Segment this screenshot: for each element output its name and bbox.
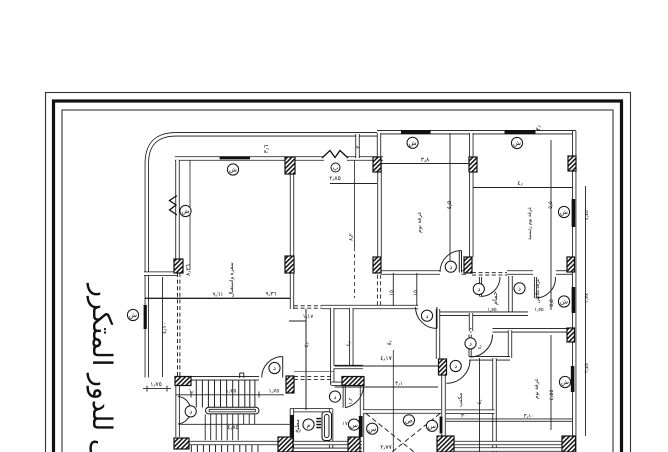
column C17: [437, 436, 454, 452]
svg-text:د: د: [477, 286, 480, 293]
svg-text:٣٠: ٣٠: [461, 414, 467, 420]
bathrooms bottom wall: [438, 312, 528, 316]
column C10: [567, 328, 575, 342]
wall connector x471: [469, 313, 473, 331]
small room right wall: [329, 409, 333, 452]
wall y358 WC bottom: [469, 356, 510, 360]
symbol s21: [450, 360, 461, 371]
column C12: [175, 377, 191, 386]
dim line terrace: [330, 183, 377, 185]
terrace divider stub: [355, 134, 359, 158]
svg-text:١٫٧٥: ١٫٧٥: [269, 389, 280, 395]
svg-text:١٫: ١٫: [189, 389, 194, 395]
duct wall vertical x351: [349, 308, 353, 366]
svg-text:ب: ب: [332, 165, 339, 172]
svg-text:س: س: [350, 422, 358, 429]
svg-text:د: د: [426, 313, 429, 320]
svg-text:٣٫١٠: ٣٫١٠: [524, 414, 535, 420]
dim line y386: [335, 386, 438, 388]
svg-text:مسقط افقى للدور المتكرر: مسقط افقى للدور المتكرر: [86, 282, 117, 452]
symbol s9: [445, 261, 456, 272]
top wall B (middle/right rooms): [377, 130, 576, 134]
symbol s10: [421, 310, 432, 321]
svg-text:٤٫: ٤٫: [517, 181, 522, 187]
bottom outer wall right: [453, 447, 576, 451]
bottom main wall right: [446, 441, 576, 445]
outer terrace wall rounded top-left: [147, 134, 377, 377]
svg-text:ص: ص: [405, 418, 413, 425]
wall reception divider: [290, 172, 294, 256]
svg-text:د: د: [454, 363, 457, 370]
svg-text:مطبخ: مطبخ: [294, 419, 301, 433]
window W-R2: [572, 287, 576, 313]
shaft cross diagonal 2: [392, 414, 440, 452]
hall south wall dashed part: [294, 305, 322, 307]
stair door notch: [239, 373, 241, 378]
svg-text:٩٫٦١: ٩٫٦١: [213, 292, 224, 298]
svg-text:ش: ش: [560, 209, 568, 216]
svg-text:غرفة نوم رئيسية: غرفة نوم رئيسية: [527, 207, 533, 240]
dashed open edge below: [177, 273, 179, 377]
svg-text:س: س: [428, 423, 436, 430]
svg-text:س: س: [368, 426, 376, 433]
column C1: [285, 157, 295, 174]
stair upper flight risers: [195, 380, 197, 407]
svg-text:ش: ش: [560, 299, 568, 306]
bedroom row top wall y330: [493, 328, 575, 332]
svg-text:٤٫: ٤٫: [346, 341, 352, 346]
symbol s14: [329, 391, 340, 402]
symbol s11: [473, 283, 484, 294]
inner border frame: [62, 110, 613, 452]
svg-text:ش: ش: [129, 312, 137, 319]
right outer wall: [572, 131, 576, 452]
dim line room C: [473, 187, 572, 189]
stair top wall: [190, 376, 259, 380]
symbol s8: [559, 376, 570, 387]
dashed wall below C7: [376, 275, 378, 306]
door D4 reception-hall: [416, 307, 438, 329]
svg-text:١٫٧٥: ١٫٧٥: [534, 307, 544, 313]
reception bottom wall (single): [145, 297, 291, 299]
hall east wall x438: [436, 309, 440, 359]
svg-text:٤٫٨٥: ٤٫٨٥: [227, 425, 239, 431]
wall x494: [492, 358, 496, 452]
wall living/bedroom1 x379.5: [377, 160, 381, 257]
svg-text:٤٫١٧: ٤٫١٧: [380, 356, 392, 362]
small room top wall y410: [290, 408, 333, 412]
stair left wall: [175, 385, 179, 437]
svg-text:٤٫١٠: ٤٫١٠: [162, 322, 168, 334]
column C2: [373, 157, 381, 172]
svg-text:١٥: ١٥: [389, 290, 395, 296]
window W-R1: [572, 199, 576, 227]
symbol s5: [127, 309, 138, 320]
svg-text:د: د: [469, 341, 472, 348]
window W-L1: [144, 305, 147, 329]
dim tick y321: [289, 320, 306, 322]
stair handrail: [206, 407, 260, 414]
symbol s3: [511, 137, 522, 148]
svg-text:غرفة نوم: غرفة نوم: [416, 212, 423, 233]
corridor wall x443: [441, 374, 445, 437]
svg-text:٤٫: ٤٫: [477, 344, 483, 349]
window W-A: [220, 156, 250, 159]
window wall poche 3: [440, 417, 443, 434]
outer border frame: [46, 93, 631, 452]
column C8: [464, 257, 472, 273]
door D1 stair top: [262, 357, 283, 378]
dim line room B width: [381, 163, 469, 165]
column C6: [285, 256, 294, 273]
dim line x551: [550, 140, 552, 310]
bathroom divider wall: [508, 276, 512, 313]
svg-text:د: د: [189, 409, 192, 416]
svg-text:٥٫٥: ٥٫٥: [548, 201, 554, 209]
wall y330 left stub: [470, 328, 472, 332]
svg-text:٥٫٥: ٥٫٥: [549, 299, 555, 307]
column C11: [439, 359, 447, 375]
svg-text:٣٫: ٣٫: [536, 125, 542, 130]
svg-text:٣٫١: ٣٫١: [395, 381, 403, 387]
svg-text:مكتب: مكتب: [457, 393, 464, 407]
svg-text:١٥: ١٥: [413, 290, 419, 296]
break symbol wall A: [322, 151, 348, 159]
WC right wall x510: [508, 330, 512, 358]
svg-text:د: د: [334, 394, 337, 401]
dim line x479: [479, 358, 481, 452]
symbol s17: [367, 423, 378, 434]
dim line x190: [189, 160, 191, 270]
svg-text:٤٫٤٥: ٤٫٤٥: [584, 210, 590, 220]
svg-text:سفرة واستقبال: سفرة واستقبال: [229, 262, 235, 297]
shaft cross diagonal 1: [366, 414, 414, 452]
hall top wall w/ door opening: [381, 270, 440, 274]
kitchen wall vertical x332: [330, 308, 334, 385]
column C14: [342, 377, 364, 386]
svg-text:ش: ش: [409, 140, 417, 147]
top wall A right part: [347, 156, 383, 160]
dim line x354.5: [354, 160, 356, 247]
window W-B2: [505, 130, 536, 133]
dim line stairs: [176, 394, 284, 396]
svg-text:٩٫٣٦: ٩٫٣٦: [266, 292, 277, 298]
dim line y366: [335, 365, 439, 367]
window W-R3: [571, 366, 575, 392]
svg-text:ش: ش: [182, 208, 190, 215]
column C13: [286, 376, 294, 393]
symbol s4: [180, 205, 191, 216]
door D5 bath left: [481, 277, 501, 297]
svg-text:م: م: [306, 422, 310, 429]
svg-text:ش: ش: [513, 140, 521, 147]
svg-text:٤٫: ٤٫: [304, 342, 310, 347]
svg-text:٢: ٢: [356, 145, 362, 148]
thin line y371.5: [294, 371, 334, 373]
symbol s20: [465, 338, 476, 349]
vent grille: [316, 418, 321, 420]
dim lines hall verticals: [392, 273, 394, 306]
svg-text:٣٫٨: ٣٫٨: [421, 158, 430, 164]
svg-text:١٧: ١٧: [342, 421, 348, 427]
svg-text:٨٫٢٦: ٨٫٢٦: [186, 264, 192, 276]
column C16b: [348, 437, 360, 452]
wall connector room A/B: [377, 133, 381, 158]
dashed wall right of C13: [294, 376, 331, 378]
window W-B1: [401, 130, 431, 133]
svg-text:٢٫٧٨: ٢٫٧٨: [584, 293, 590, 303]
column C3: [469, 157, 477, 172]
symbol s22: [269, 362, 280, 373]
column C15: [174, 438, 189, 449]
door D8 corridor end: [447, 360, 471, 384]
symbol s6: [558, 206, 569, 217]
line x306: [305, 309, 307, 410]
symbol s13: [185, 406, 196, 417]
stair mid landing line: [179, 423, 291, 425]
svg-text:د: د: [273, 365, 276, 372]
door D9 stair hall: [345, 388, 363, 408]
svg-text:١٫٢: ١٫٢: [348, 397, 354, 404]
symbol s7: [558, 296, 569, 307]
svg-text:حمام: حمام: [491, 291, 499, 305]
stair lower flight risers: [204, 414, 206, 424]
svg-text:١٫١٧: ١٫١٧: [303, 314, 315, 320]
svg-text:٢٫٧٧: ٢٫٧٧: [380, 445, 392, 451]
shaft left wall: [360, 384, 364, 452]
column C18: [562, 436, 576, 452]
column C9: [567, 257, 575, 272]
duct shaft: [322, 412, 332, 441]
door leaf D3: [461, 251, 463, 273]
svg-text:د: د: [449, 264, 452, 271]
dim line x450: [449, 133, 451, 272]
duct wall elbow: [334, 365, 364, 369]
svg-text:٣٫٤٥: ٣٫٤٥: [584, 363, 590, 373]
column C16: [278, 437, 293, 452]
break symbol left wall: [170, 196, 178, 216]
svg-text:ش: ش: [229, 167, 237, 174]
dim line x551 lower: [550, 335, 552, 430]
symbol s18: [403, 415, 414, 426]
dashed wall bathrooms top: [472, 272, 507, 274]
line x162 terrace: [162, 277, 164, 377]
svg-text:غرفة ملابس: غرفة ملابس: [535, 278, 541, 303]
column C4: [568, 156, 576, 171]
west wall link: [144, 271, 177, 275]
line y420 bedroom4: [446, 418, 572, 420]
bathrooms top wall right part: [556, 270, 572, 274]
dim line right side: [585, 186, 587, 436]
shaft top wall: [363, 409, 441, 413]
svg-text:١٫٢٥: ١٫٢٥: [226, 389, 237, 395]
left wall of reception: [175, 160, 179, 259]
column C7: [373, 257, 381, 273]
svg-text:٤٫٥٥: ٤٫٥٥: [549, 390, 555, 401]
symbol s12: [514, 283, 525, 294]
door D6 bath right: [536, 277, 556, 298]
column C5: [174, 259, 183, 273]
stair bottom run risers: [190, 445, 192, 452]
hall south wall solid part: [322, 305, 418, 309]
symbol s16: [348, 419, 359, 430]
svg-text:٢٫٨٥: ٢٫٨٥: [329, 176, 341, 182]
door D2 stair left: [178, 397, 191, 425]
symbol break circle: [331, 163, 340, 172]
svg-text:٥٫: ٥٫: [387, 340, 393, 345]
symbol s2: [407, 137, 418, 148]
top wall A left part: [175, 156, 324, 160]
thick border frame: [54, 101, 622, 452]
wall y411: [446, 409, 495, 413]
svg-text:٣٫٦: ٣٫٦: [264, 145, 270, 153]
svg-text:٤٫: ٤٫: [477, 399, 483, 404]
symbol s19: [426, 420, 437, 431]
svg-text:٨٫٢: ٨٫٢: [349, 233, 355, 241]
svg-text:غرفة نوم: غرفة نوم: [534, 378, 540, 399]
svg-text:د: د: [518, 286, 521, 293]
wall stub to C14: [331, 382, 346, 386]
door D3 hall top: [440, 251, 462, 273]
svg-text:١٫٧٥: ١٫٧٥: [487, 307, 497, 313]
bathrooms top wall: [507, 270, 533, 274]
window wall poche: [290, 415, 294, 437]
svg-text:٤٫٥: ٤٫٥: [447, 201, 453, 209]
symbol s1: [227, 164, 238, 175]
svg-text:ش: ش: [561, 379, 569, 386]
small room left wall: [290, 409, 294, 452]
window wall poche 2: [359, 416, 363, 437]
door D7 wc: [470, 335, 493, 358]
wall between middle and right bedroom: [469, 133, 473, 257]
bottom wall left (stair): [176, 441, 362, 445]
wall below column C6: [290, 273, 294, 309]
dim line left 175: [143, 388, 171, 390]
svg-text:١٫٧٥: ١٫٧٥: [150, 382, 162, 388]
bottom outer wall left segment: [293, 448, 362, 452]
symbol s15: [303, 419, 314, 430]
